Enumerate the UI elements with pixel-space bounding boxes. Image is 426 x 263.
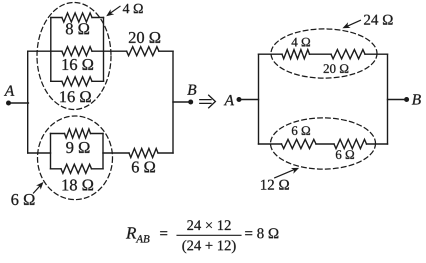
wire 18 ohm leads bbox=[51, 168, 104, 170]
node B (left circuit) bbox=[187, 85, 196, 105]
resistor R 8 ohm bbox=[62, 13, 92, 22]
dashed ellipse around 8/16/16 group bbox=[37, 3, 111, 110]
junction bar right of 8/16/16 block bbox=[103, 18, 105, 82]
value label 8 ohm bbox=[66, 23, 89, 34]
value label 18 ohm bbox=[63, 179, 94, 190]
dashed ellipse around 9/18 group bbox=[38, 116, 113, 200]
wire bottom: bus to first 6 ohm bbox=[259, 143, 282, 145]
formula R_AB symbol bbox=[126, 227, 167, 242]
formula result = 8 ohm bbox=[245, 228, 278, 238]
resistor R 16 ohm (middle) bbox=[62, 47, 92, 56]
node A (right circuit) bbox=[224, 95, 242, 105]
wire second 6 ohm to right bus bbox=[367, 143, 388, 145]
wire block to 20 ohm bbox=[92, 50, 127, 52]
wire top: bus to 4 ohm bbox=[259, 53, 283, 55]
equivalent value label 6 ohm (lower left) bbox=[11, 194, 34, 205]
wire between the 6 ohms bbox=[316, 143, 334, 145]
implies double arrow bbox=[200, 95, 216, 108]
value label 6 ohm (below wire) bbox=[336, 150, 354, 159]
right bus wire (right circuit) bbox=[387, 54, 389, 144]
wire bottom row leads bbox=[51, 80, 104, 82]
value label 20 ohm (right circuit) bbox=[324, 64, 349, 73]
formula fraction bar bbox=[177, 234, 241, 236]
wire top branch: bus to parallel block bbox=[28, 50, 62, 52]
value label 20 ohm bbox=[129, 32, 160, 43]
wire bottom branch: bus to 9/18 block bbox=[28, 152, 51, 154]
value label 16 ohm (middle) bbox=[63, 59, 94, 70]
wire 20 ohm to right bus (right circuit) bbox=[365, 53, 388, 55]
wire 9/18 block to 6 ohm bbox=[103, 152, 129, 154]
resistor R 20 ohm bbox=[127, 47, 159, 56]
resistor R 9 ohm bbox=[65, 129, 91, 138]
equivalent value label 4 ohm bbox=[123, 4, 143, 13]
arrow from 6 ohm label to 9/18 group bbox=[34, 182, 44, 193]
wire A to left bus (right circuit) bbox=[239, 99, 259, 101]
dashed ellipse around 6+6 bbox=[271, 118, 376, 169]
formula numerator 24 x 12 bbox=[187, 220, 230, 230]
wire 6 ohm to right bus bbox=[158, 152, 173, 154]
node B (right circuit) bbox=[404, 94, 421, 104]
value label 9 ohm bbox=[66, 142, 89, 153]
resistor R 20 ohm (right circuit) bbox=[331, 50, 365, 59]
value label 4 ohm (right circuit) bbox=[292, 38, 311, 47]
right bus wire bbox=[172, 51, 174, 153]
left bus wire (right circuit) bbox=[258, 54, 260, 144]
dashed ellipse around 4+20 bbox=[271, 29, 377, 78]
value label 6 ohm (above wire) bbox=[292, 126, 310, 135]
wire 20 ohm to right bus bbox=[159, 50, 173, 52]
resistor R 18 ohm bbox=[61, 164, 92, 173]
wire right bus to node B (right circuit) bbox=[388, 99, 407, 101]
resistor R 16 ohm (bottom) bbox=[62, 77, 92, 86]
resistor R 6 ohm (first, right circuit) bbox=[282, 139, 317, 148]
wire A to left bus bbox=[9, 102, 29, 104]
resistor R 6 ohm (series) bbox=[129, 149, 158, 158]
junction bar left of 9/18 block bbox=[50, 134, 52, 169]
value label 6 ohm (series) bbox=[132, 162, 155, 173]
equivalent value label 24 ohm bbox=[364, 15, 393, 25]
equivalent value label 12 ohm bbox=[261, 180, 289, 190]
wire right bus to node B bbox=[173, 101, 191, 103]
arrow from 24 ohm label to top ellipse bbox=[342, 20, 360, 28]
wire top row leads bbox=[51, 17, 104, 19]
junction bar left of 8/16/16 block bbox=[50, 18, 52, 82]
value label 16 ohm (bottom) bbox=[60, 91, 91, 102]
left bus wire bbox=[27, 51, 29, 153]
formula denominator (24 + 12) bbox=[182, 240, 235, 253]
resistor R 6 ohm (second, right circuit) bbox=[334, 139, 367, 148]
arrow from 12 ohm label to bottom ellipse bbox=[275, 168, 299, 178]
resistor R 4 ohm bbox=[282, 50, 310, 59]
wire 4 ohm to 20 ohm bbox=[310, 53, 332, 55]
node A (left circuit) bbox=[4, 86, 14, 106]
wire 9 ohm leads bbox=[51, 133, 104, 135]
junction bar right of 9/18 block bbox=[102, 134, 104, 169]
arrow from 4 ohm label to group bbox=[106, 6, 120, 16]
